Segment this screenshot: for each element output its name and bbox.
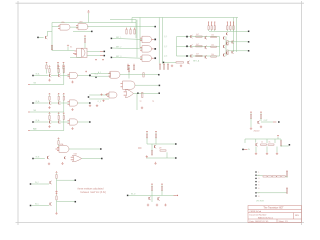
svg-text:Document Number:: Document Number: bbox=[250, 214, 268, 217]
wire bbox=[155, 138, 157, 144]
resistor R52 bbox=[261, 144, 267, 145]
transistor Q3 bbox=[189, 45, 192, 48]
transistor Q15 bbox=[157, 197, 160, 200]
transistor Q4 bbox=[189, 55, 192, 58]
nand gate U2C bbox=[142, 55, 152, 61]
wire bbox=[146, 138, 148, 144]
wire bbox=[255, 147, 257, 153]
wire bbox=[58, 119, 60, 120]
svg-text:NET_A: NET_A bbox=[193, 60, 200, 63]
junction bbox=[186, 45, 188, 47]
wire bbox=[58, 73, 60, 75]
wire bbox=[257, 174, 263, 177]
wire bbox=[166, 152, 168, 158]
transistor Q6 bbox=[204, 46, 207, 49]
wire input bbox=[32, 158, 34, 160]
resistor R12 bbox=[211, 46, 217, 47]
resistor R44 bbox=[151, 184, 153, 186]
ground bbox=[164, 204, 166, 206]
wire bbox=[78, 121, 90, 123]
wire bbox=[51, 102, 58, 104]
junction bbox=[248, 31, 250, 33]
and gate U5A bbox=[56, 148, 60, 150]
resistor R42 bbox=[151, 151, 152, 155]
transistor Q16 bbox=[257, 121, 260, 124]
wire bbox=[161, 18, 163, 64]
resistor R51 bbox=[260, 112, 262, 114]
transistor QT2 bbox=[225, 42, 228, 44]
svg-text:NET_2: NET_2 bbox=[116, 46, 121, 48]
wire bbox=[82, 158, 102, 160]
wire bbox=[276, 147, 278, 153]
wire bbox=[51, 121, 58, 123]
and gate U1B bbox=[78, 24, 88, 30]
wire bbox=[63, 119, 65, 130]
wire bbox=[164, 61, 176, 63]
junction bbox=[104, 51, 106, 53]
svg-text:EAGLE-SCH-0.1: EAGLE-SCH-0.1 bbox=[258, 216, 274, 219]
wire bbox=[277, 137, 279, 139]
transistor bbox=[57, 121, 60, 124]
svg-text:1: 1 bbox=[258, 172, 259, 174]
svg-text:4: 4 bbox=[258, 181, 259, 183]
ground bbox=[71, 81, 73, 83]
wire bbox=[244, 139, 246, 143]
ground bbox=[156, 204, 158, 206]
resistor R9 bbox=[196, 36, 202, 37]
wire input bbox=[32, 121, 34, 123]
junction bbox=[175, 143, 177, 145]
resistor R41 bbox=[155, 131, 157, 133]
wire input bbox=[138, 147, 142, 149]
resistor bbox=[63, 93, 65, 95]
resistor chain R60-R64 bbox=[263, 176, 267, 177]
transistor Q9 bbox=[222, 45, 225, 48]
and gate bbox=[70, 119, 78, 125]
svg-text:6: 6 bbox=[258, 188, 259, 190]
svg-text:U5A: U5A bbox=[60, 143, 64, 146]
svg-text:8: 8 bbox=[258, 196, 259, 198]
svg-text:between I and Vcc (3.3v): between I and Vcc (3.3v) bbox=[81, 191, 107, 194]
svg-text:A_1: A_1 bbox=[98, 71, 101, 74]
wire bbox=[73, 30, 91, 32]
svg-text:3: 3 bbox=[258, 178, 259, 180]
junction bbox=[186, 36, 188, 38]
transistor Q10b bbox=[231, 41, 234, 44]
transistor Q12b bbox=[63, 157, 66, 159]
wire bbox=[133, 93, 137, 95]
wire out bbox=[56, 200, 58, 202]
junction bbox=[101, 158, 103, 160]
wire bbox=[188, 55, 220, 57]
wire bbox=[257, 192, 287, 194]
resistor bbox=[49, 66, 51, 68]
resistor R2b bbox=[51, 45, 52, 50]
wire bbox=[147, 143, 175, 145]
wire bbox=[260, 118, 262, 121]
resistor R40 bbox=[146, 131, 148, 133]
resistor R50 bbox=[250, 112, 252, 114]
resistor array R3 R4 R5 bbox=[46, 62, 48, 64]
wire bbox=[146, 157, 175, 159]
supply VCC P2 bbox=[95, 59, 97, 61]
wire out bbox=[56, 178, 58, 180]
resistor R18 bbox=[127, 64, 129, 65]
wire input 2 bbox=[28, 111, 30, 113]
wire bbox=[266, 147, 268, 153]
ground bbox=[48, 106, 50, 108]
junction bbox=[152, 38, 154, 40]
pin bbox=[73, 53, 77, 55]
wire bbox=[161, 190, 163, 195]
svg-text:O_1: O_1 bbox=[95, 74, 99, 76]
wire input bbox=[30, 183, 32, 185]
svg-text:IN: IN bbox=[248, 149, 250, 151]
capacitor C1 bbox=[100, 93, 107, 102]
wire bbox=[84, 43, 86, 49]
ground bbox=[48, 125, 50, 127]
wire net ROW1 bbox=[209, 30, 248, 32]
transistor Q5 bbox=[204, 36, 207, 39]
wire bbox=[266, 139, 268, 143]
resistor R45 bbox=[161, 184, 163, 186]
and gate U3B bbox=[123, 81, 136, 89]
ground bbox=[171, 65, 173, 67]
wire bbox=[52, 26, 59, 28]
wire bbox=[280, 139, 282, 141]
resistor R19 bbox=[133, 64, 135, 65]
wire bbox=[56, 180, 58, 190]
ground bbox=[266, 152, 268, 154]
resistor R23 bbox=[128, 65, 130, 67]
svg-text:these resistors calculated: these resistors calculated bbox=[78, 188, 105, 191]
svg-text:1k: 1k bbox=[269, 141, 271, 143]
wire bbox=[78, 75, 90, 77]
title block frame bbox=[248, 206, 302, 223]
resistor R65 bbox=[286, 172, 287, 177]
wire input bbox=[242, 149, 244, 151]
svg-text:Date: 10/05/21 17:09: Date: 10/05/21 17:09 bbox=[250, 220, 270, 223]
wire bbox=[70, 26, 78, 28]
and gate bbox=[70, 100, 78, 106]
resistor R8 bbox=[134, 28, 136, 30]
transistor Q10c bbox=[231, 51, 234, 54]
ic X1 gate bbox=[77, 48, 86, 57]
or gate U5B bbox=[73, 155, 82, 162]
junction bbox=[89, 75, 91, 77]
wire bbox=[135, 20, 137, 39]
wire bbox=[70, 56, 81, 58]
ground bbox=[146, 155, 148, 157]
junction bbox=[175, 157, 177, 159]
svg-text:4k7: 4k7 bbox=[196, 34, 199, 36]
ground bbox=[141, 107, 143, 109]
svg-text:S_3: S_3 bbox=[33, 129, 36, 131]
wire bbox=[128, 72, 130, 79]
resistor bbox=[58, 93, 60, 95]
wire bbox=[255, 139, 257, 143]
svg-text:10k: 10k bbox=[211, 44, 214, 46]
resistor R24 bbox=[143, 73, 144, 77]
pin bbox=[174, 194, 177, 196]
resistor R11 bbox=[196, 46, 202, 47]
transistor bbox=[57, 74, 60, 77]
wire bbox=[69, 148, 100, 150]
resistor R30 bbox=[58, 138, 60, 140]
resistor bbox=[49, 93, 51, 95]
ground bbox=[147, 204, 149, 206]
svg-text:2N2222: 2N2222 bbox=[254, 131, 260, 133]
junction bbox=[137, 92, 139, 94]
wire bbox=[188, 36, 220, 38]
resistor bbox=[63, 66, 65, 68]
svg-text:O_2: O_2 bbox=[98, 101, 102, 103]
ground bbox=[48, 79, 50, 81]
wire bbox=[51, 75, 58, 77]
wire input bbox=[32, 75, 34, 77]
svg-text:Q9: Q9 bbox=[159, 148, 161, 150]
junction bbox=[75, 201, 77, 203]
wire bbox=[46, 69, 48, 73]
wire input bbox=[30, 205, 32, 207]
wire net ROW2 bbox=[228, 41, 248, 43]
wire bbox=[49, 119, 51, 120]
wire bbox=[63, 100, 65, 112]
ground bbox=[71, 108, 73, 110]
junction bbox=[278, 121, 280, 123]
wire input bbox=[127, 195, 129, 197]
svg-text:T2: T2 bbox=[140, 101, 142, 103]
resistor bbox=[56, 193, 58, 195]
wire bbox=[135, 84, 159, 86]
transistor Q13 bbox=[153, 145, 156, 148]
resistor bbox=[49, 113, 51, 115]
ground bbox=[71, 127, 73, 129]
resistor R10 bbox=[211, 36, 217, 37]
xor gate U3A bbox=[89, 75, 91, 77]
supply flag P5 bbox=[88, 10, 90, 12]
wire input 2 bbox=[28, 84, 30, 86]
transistor Q14 bbox=[148, 197, 151, 200]
junction bbox=[186, 55, 188, 57]
junction bbox=[159, 85, 161, 87]
wire bbox=[56, 202, 58, 212]
svg-text:IN_A: IN_A bbox=[36, 73, 41, 76]
ground bbox=[276, 152, 278, 154]
supply VCC P3 bbox=[102, 59, 104, 61]
resistor R2 bbox=[84, 35, 86, 37]
supply VCC P1 bbox=[67, 45, 69, 47]
resistor bbox=[58, 66, 60, 68]
resistor R13 bbox=[196, 55, 202, 56]
wire input bbox=[32, 102, 34, 104]
transistor QT1 bbox=[225, 33, 228, 35]
junction bbox=[152, 57, 154, 59]
nand gate U2A bbox=[142, 36, 152, 42]
bus wire net BUS1 bbox=[132, 17, 238, 19]
and gate bbox=[70, 72, 78, 78]
svg-text:NET_1: NET_1 bbox=[116, 37, 121, 39]
ground bbox=[260, 126, 262, 128]
svg-text:Q_2: Q_2 bbox=[164, 46, 167, 48]
ground bbox=[48, 163, 50, 165]
wire input 2 bbox=[28, 130, 30, 132]
svg-text:Sheet: 1/1: Sheet: 1/1 bbox=[279, 220, 289, 223]
junction bbox=[152, 48, 154, 50]
resistor R6 bbox=[126, 28, 128, 30]
junction bbox=[158, 92, 160, 94]
resistor bbox=[58, 113, 60, 115]
junction bbox=[289, 144, 291, 146]
wire bbox=[236, 18, 238, 53]
wire bbox=[57, 69, 59, 73]
resistor R15 bbox=[227, 41, 228, 46]
svg-text:5: 5 bbox=[258, 185, 259, 187]
pin bbox=[273, 121, 276, 123]
ground bbox=[96, 104, 98, 106]
wire bbox=[136, 20, 138, 58]
wire bbox=[158, 18, 160, 64]
transistor QT3 bbox=[225, 52, 228, 54]
wire bbox=[250, 118, 252, 127]
transistor Q12 bbox=[46, 156, 49, 159]
svg-text:1k: 1k bbox=[261, 141, 263, 143]
wire row 1 bbox=[177, 36, 187, 38]
wire bbox=[78, 102, 90, 104]
svg-text:Q_1: Q_1 bbox=[164, 36, 167, 38]
resistor bbox=[56, 172, 58, 174]
and gate U1A bbox=[60, 24, 70, 30]
wire net ROW3 bbox=[228, 50, 248, 52]
junction bbox=[248, 41, 250, 43]
wire bbox=[46, 31, 48, 36]
resistor R21 bbox=[163, 63, 165, 64]
wire bbox=[225, 37, 227, 56]
svg-text:4k7: 4k7 bbox=[196, 44, 199, 46]
resistor R43 bbox=[160, 150, 166, 151]
junction bbox=[104, 55, 106, 57]
resistor R53 bbox=[268, 144, 274, 145]
svg-text:4k7: 4k7 bbox=[196, 54, 199, 56]
svg-text:CERN KiCad: CERN KiCad bbox=[250, 211, 262, 213]
wire Q out bbox=[87, 50, 100, 52]
wire net N1 bbox=[52, 22, 136, 24]
svg-text:IN_D: IN_D bbox=[131, 194, 136, 196]
resistor group RN1 bbox=[208, 22, 210, 25]
wire bbox=[261, 121, 273, 123]
junction bbox=[163, 62, 165, 64]
wire bbox=[49, 73, 51, 75]
and gate U4A bbox=[88, 96, 90, 98]
svg-text:Q_3: Q_3 bbox=[164, 56, 167, 58]
wire input net IN2 bbox=[111, 47, 113, 49]
transistor bbox=[49, 181, 52, 184]
transistor Q11 bbox=[187, 61, 190, 64]
wire vertical bbox=[176, 37, 178, 56]
resistor R7 bbox=[130, 28, 132, 30]
wire bbox=[63, 69, 65, 73]
ic X1 body bbox=[82, 48, 88, 57]
wire vertical bbox=[219, 37, 221, 56]
wire bbox=[286, 176, 288, 178]
junction bbox=[89, 102, 91, 104]
wire bbox=[63, 73, 65, 85]
svg-text:IN_A: IN_A bbox=[36, 100, 41, 103]
transistor Q8 bbox=[222, 37, 225, 40]
junction bbox=[158, 74, 160, 76]
supply VCC P4 bbox=[277, 135, 279, 137]
junction bbox=[154, 26, 156, 28]
wire bbox=[139, 18, 141, 49]
resistor R17 bbox=[176, 62, 184, 63]
svg-text:10k: 10k bbox=[211, 54, 214, 56]
transistor Q1 bbox=[37, 37, 39, 39]
wire bbox=[280, 145, 282, 147]
ground bbox=[250, 127, 252, 129]
ground bbox=[55, 190, 57, 192]
transistor bbox=[49, 203, 52, 206]
wire bbox=[144, 194, 174, 196]
svg-text:NET_3: NET_3 bbox=[116, 56, 121, 58]
resistor group RN2 bbox=[226, 22, 228, 25]
resistor R16 bbox=[227, 50, 228, 55]
wire bbox=[151, 144, 153, 151]
ground bbox=[180, 65, 182, 67]
junction bbox=[100, 148, 102, 150]
transistor Q10 bbox=[222, 54, 225, 57]
junction bbox=[75, 179, 77, 181]
transistor bbox=[57, 102, 60, 105]
wire bbox=[58, 100, 60, 102]
svg-text:IN_A: IN_A bbox=[36, 119, 41, 122]
wire bbox=[52, 49, 75, 51]
svg-text:10k: 10k bbox=[211, 35, 214, 37]
wire bbox=[139, 93, 159, 95]
transistor bbox=[48, 102, 51, 105]
transistor Q2 bbox=[189, 35, 192, 38]
transistor Q17 bbox=[255, 143, 258, 146]
wire bbox=[49, 100, 51, 102]
wire bbox=[274, 139, 276, 143]
connector JP1 pins bbox=[255, 171, 256, 172]
wire bus bbox=[245, 138, 281, 140]
junction bbox=[91, 31, 93, 33]
wire bbox=[58, 145, 60, 147]
wire bbox=[87, 26, 155, 28]
resistor R66 bbox=[286, 189, 287, 194]
svg-text:JP1 HDR: JP1 HDR bbox=[256, 200, 265, 202]
wire bbox=[151, 190, 153, 202]
svg-text:X1: X1 bbox=[70, 46, 72, 48]
svg-text:The Transistor NOT: The Transistor NOT bbox=[263, 207, 284, 210]
wire bbox=[131, 18, 133, 23]
resistor bbox=[63, 113, 65, 115]
transistor Q7 bbox=[204, 56, 207, 59]
resistor R14 bbox=[211, 56, 217, 57]
ground bbox=[61, 162, 63, 164]
or gate U4B bbox=[125, 89, 133, 97]
resistor R20 bbox=[159, 63, 161, 64]
transistor bbox=[48, 121, 51, 124]
wire bbox=[120, 74, 158, 76]
wire bbox=[51, 23, 53, 51]
svg-text:REV: REV bbox=[295, 215, 300, 217]
ground bbox=[255, 152, 257, 154]
wire bbox=[110, 19, 136, 21]
wire bbox=[136, 94, 138, 111]
wire row 3 bbox=[177, 55, 187, 57]
junction bbox=[89, 121, 91, 123]
